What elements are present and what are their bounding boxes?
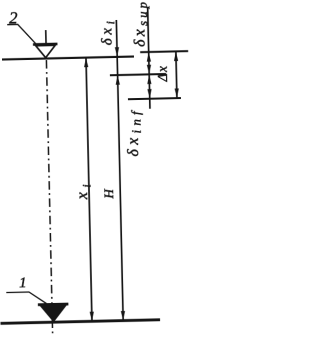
svg-text:1: 1 [19, 275, 27, 291]
dimension deltax_sup / deltax_inf line [148, 7, 150, 109]
arrowhead x_i bottom [90, 312, 94, 322]
datum symbol 2 (open triangle level mark) [33, 43, 58, 46]
datum symbol 1 (filled triangle level mark) [38, 303, 69, 306]
wire upper limit line (sup) [140, 51, 188, 52]
arrowhead inf down [147, 89, 151, 99]
svg-text:Δx: Δx [155, 64, 170, 82]
arrowhead x_i top [84, 58, 88, 68]
dimension deltax_i / H line [116, 20, 123, 321]
wire upper level line (x_i level) [2, 56, 134, 59]
arrowhead Delta x top [174, 51, 178, 61]
arrowhead sup down [147, 65, 151, 75]
wire lower limit line (inf) [128, 98, 181, 99]
arrowhead inf up [147, 74, 151, 84]
arrowhead H bottom [121, 311, 125, 321]
arrowhead H up at nominal line [115, 75, 119, 85]
wire centerline (dash-dot axis) [45, 30, 47, 45]
wire nominal level line (H) [110, 74, 166, 75]
dimension Delta x line [176, 51, 177, 98]
arrowhead deltax_i down at upper level [115, 47, 119, 57]
arrowhead Delta x bottom [175, 88, 179, 98]
dimension x_i line [86, 58, 92, 322]
wire bottom reference line [0, 320, 160, 324]
svg-text:H: H [101, 188, 116, 199]
arrowhead sup up [147, 52, 151, 62]
